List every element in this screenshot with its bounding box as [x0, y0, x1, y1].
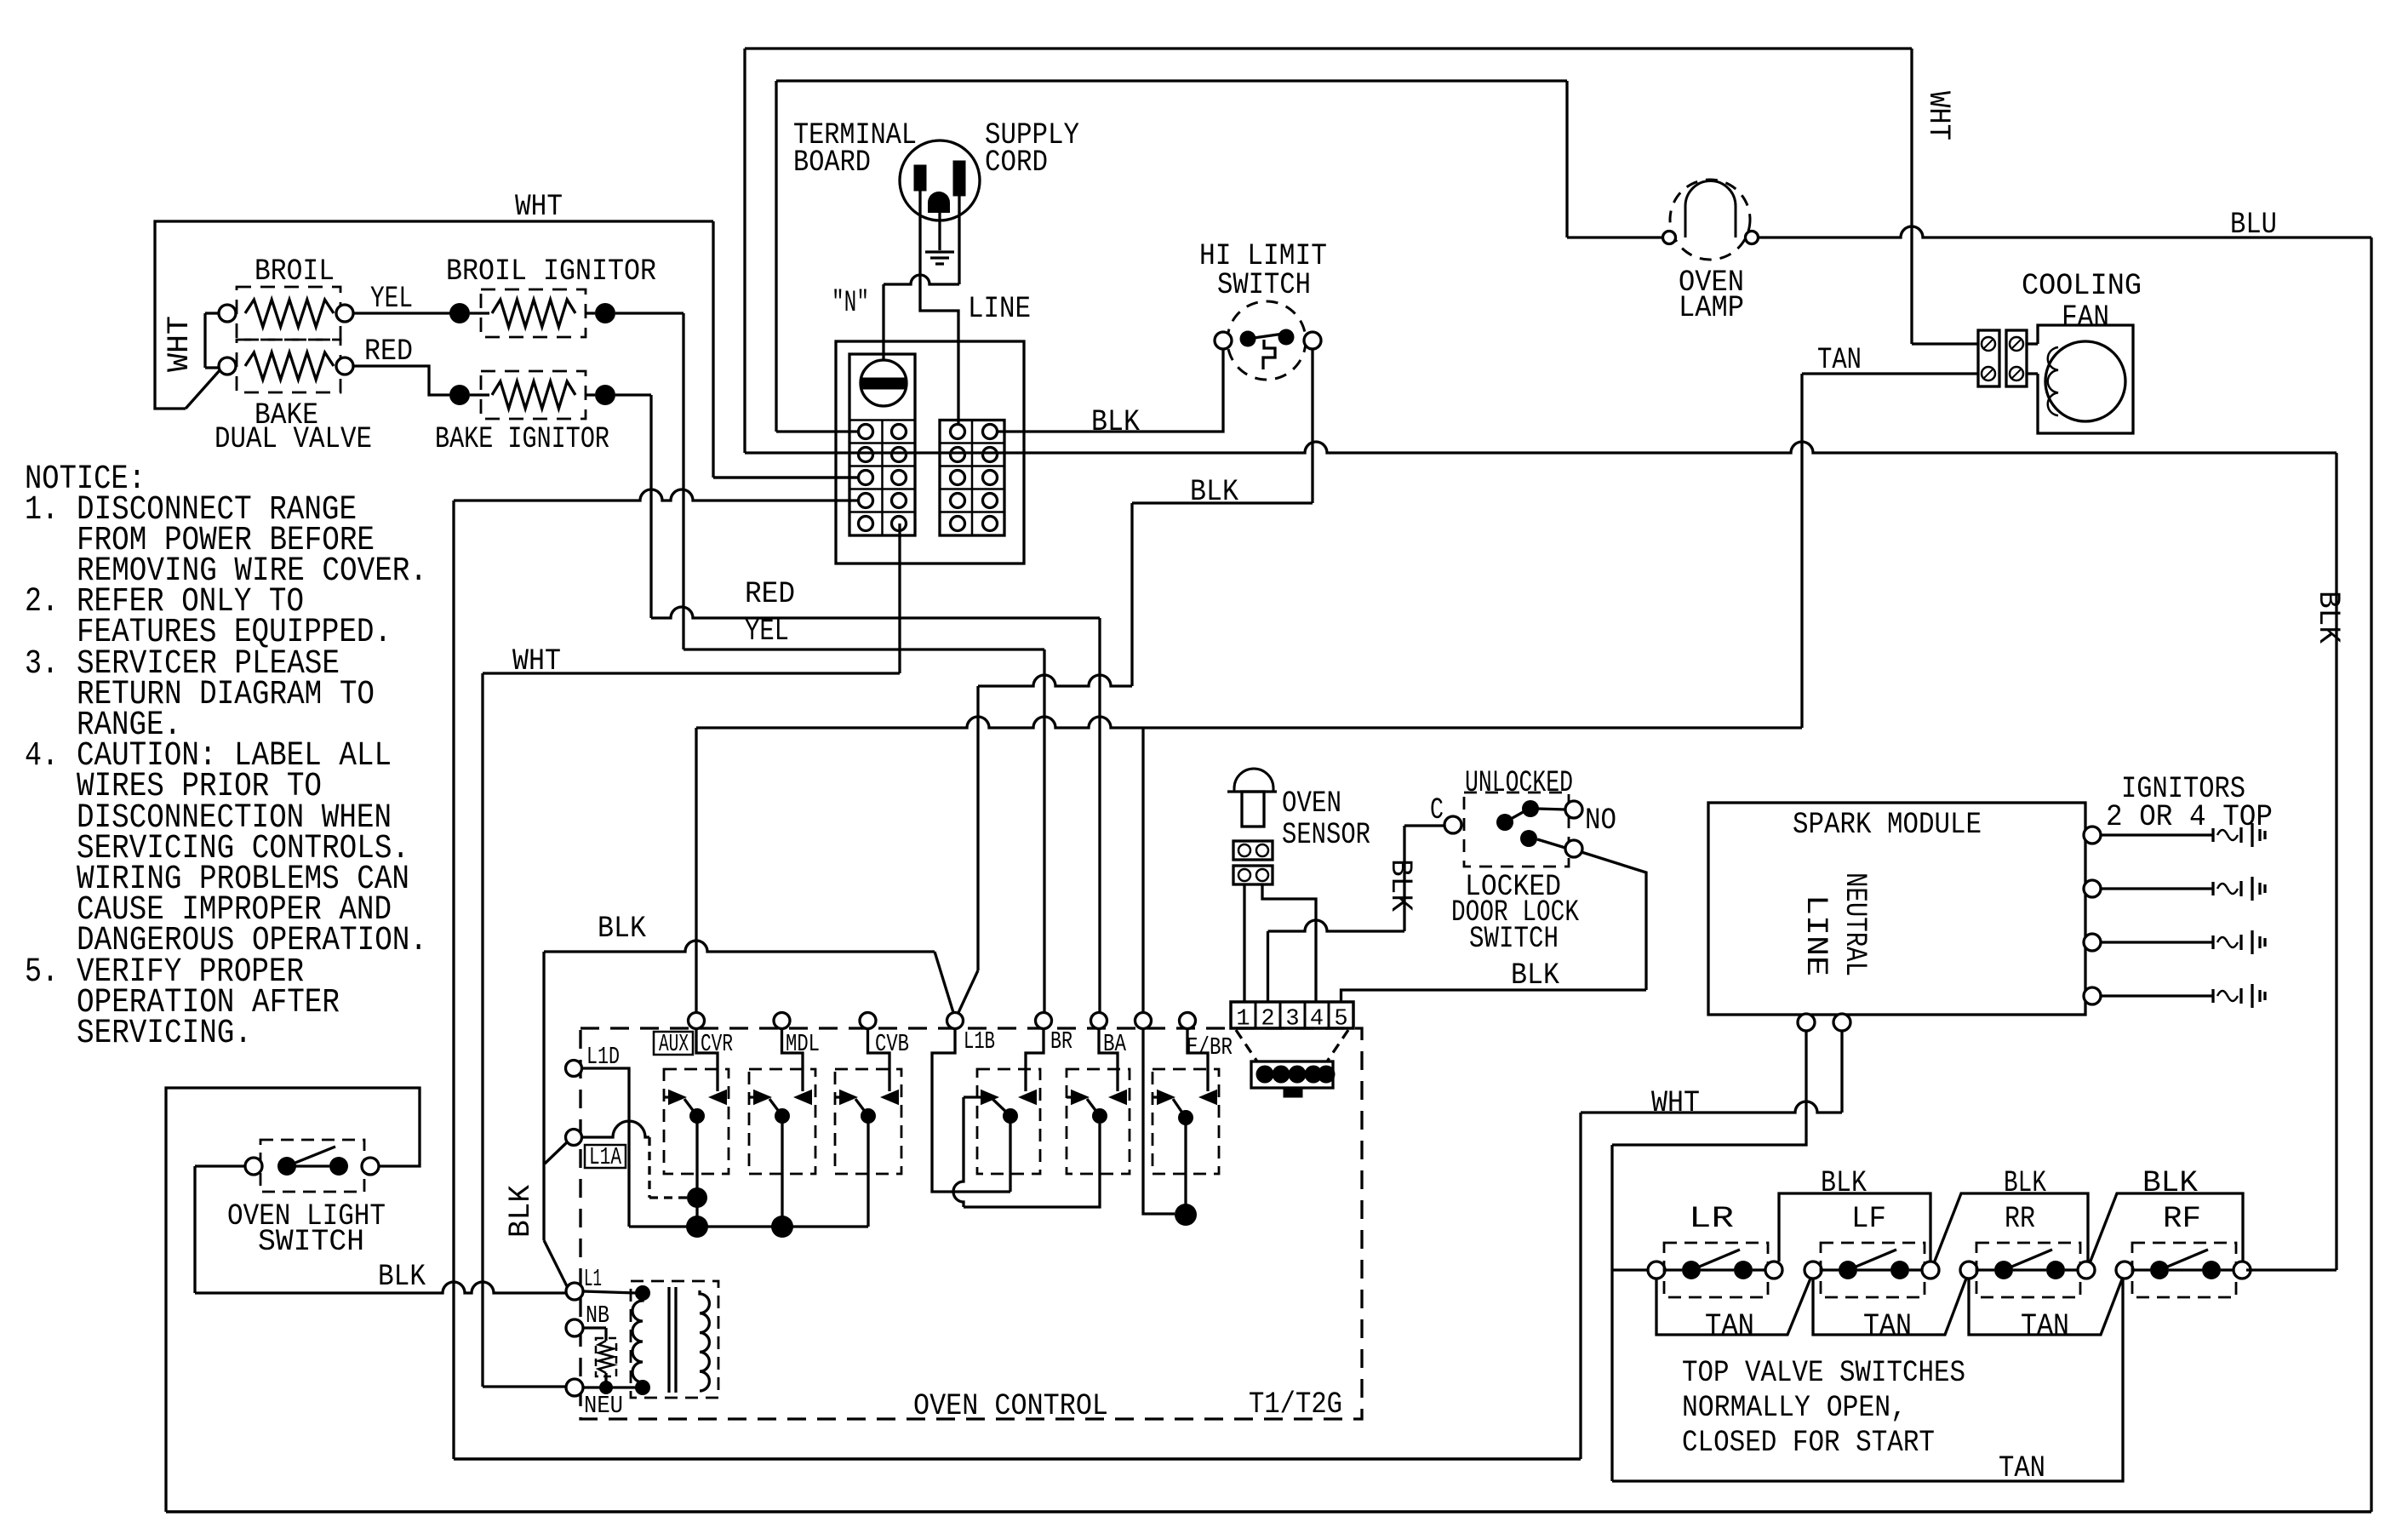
svg-text:YEL: YEL [745, 615, 789, 649]
svg-text:BR: BR [1050, 1027, 1072, 1056]
svg-text:TOP VALVE SWITCHES: TOP VALVE SWITCHES [1682, 1356, 1965, 1390]
svg-text:UNLOCKED: UNLOCKED [1465, 766, 1573, 800]
svg-text:NB: NB [586, 1302, 609, 1330]
svg-text:TAN: TAN [1817, 343, 1862, 377]
svg-text:SPARK MODULE: SPARK MODULE [1793, 808, 1982, 842]
svg-text:T1/T2G: T1/T2G [1249, 1387, 1342, 1422]
svg-text:BLK: BLK [1383, 859, 1417, 912]
svg-text:BLK: BLK [1190, 475, 1238, 509]
svg-text:1: 1 [1236, 1007, 1250, 1033]
svg-text:DUAL VALVE: DUAL VALVE [214, 422, 372, 456]
svg-text:BROIL IGNITOR: BROIL IGNITOR [446, 255, 656, 289]
svg-text:2: 2 [1261, 1007, 1274, 1033]
svg-text:YEL: YEL [370, 282, 413, 316]
svg-text:LINE: LINE [1799, 895, 1833, 976]
svg-text:LINE: LINE [968, 292, 1031, 326]
svg-text:NEU: NEU [584, 1392, 623, 1420]
svg-text:LR: LR [1689, 1202, 1734, 1236]
svg-text:WHT: WHT [515, 190, 563, 224]
svg-text:LAMP: LAMP [1679, 291, 1744, 325]
svg-text:CLOSED FOR START: CLOSED FOR START [1682, 1426, 1935, 1460]
svg-text:BLK: BLK [2142, 1166, 2198, 1200]
svg-text:2 OR 4 TOP: 2 OR 4 TOP [2106, 800, 2273, 834]
svg-text:TAN: TAN [2021, 1309, 2069, 1343]
svg-text:BLK: BLK [504, 1185, 538, 1238]
svg-text:4: 4 [1310, 1007, 1324, 1033]
svg-text:NO: NO [1585, 804, 1616, 838]
svg-text:TAN: TAN [1705, 1309, 1754, 1343]
svg-text:SERVICING.: SERVICING. [77, 1015, 252, 1053]
svg-text:E/BR: E/BR [1187, 1033, 1233, 1061]
svg-text:OVEN: OVEN [1282, 787, 1341, 821]
svg-text:COOLING: COOLING [2022, 269, 2142, 303]
svg-text:AUX: AUX [659, 1030, 689, 1058]
svg-text:5: 5 [1334, 1007, 1347, 1033]
svg-text:FAN: FAN [2062, 300, 2109, 335]
svg-text:"N": "N" [832, 286, 869, 320]
svg-text:WHT: WHT [163, 316, 197, 372]
svg-text:L1A: L1A [589, 1143, 621, 1171]
svg-text:OVEN CONTROL: OVEN CONTROL [913, 1389, 1108, 1423]
svg-text:LF: LF [1851, 1202, 1886, 1236]
svg-text:NEUTRAL: NEUTRAL [1838, 872, 1872, 976]
svg-text:BLK: BLK [1091, 405, 1140, 439]
svg-text:4.: 4. [25, 737, 59, 775]
svg-text:WHT: WHT [1651, 1086, 1700, 1120]
svg-text:SWITCH: SWITCH [1469, 922, 1559, 956]
svg-text:2.: 2. [25, 583, 59, 621]
svg-text:BLK: BLK [378, 1260, 426, 1294]
svg-text:SWITCH: SWITCH [258, 1225, 364, 1259]
svg-text:BLK: BLK [1821, 1166, 1867, 1200]
svg-text:3: 3 [1285, 1007, 1299, 1033]
svg-text:5.: 5. [25, 953, 59, 992]
svg-text:BLK: BLK [2311, 591, 2345, 644]
svg-text:L1: L1 [584, 1265, 602, 1293]
svg-text:BROIL: BROIL [255, 255, 335, 289]
svg-text:L1D: L1D [586, 1043, 620, 1071]
svg-text:RF: RF [2163, 1202, 2201, 1236]
svg-text:RED: RED [745, 577, 795, 611]
svg-text:SENSOR: SENSOR [1282, 818, 1370, 852]
svg-text:L1B: L1B [964, 1027, 995, 1056]
svg-text:CORD: CORD [985, 146, 1048, 180]
svg-text:WHT: WHT [512, 644, 561, 678]
svg-text:TAN: TAN [1863, 1309, 1912, 1343]
svg-text:C: C [1430, 793, 1444, 827]
svg-text:RR: RR [2005, 1202, 2035, 1236]
svg-text:3.: 3. [25, 645, 59, 684]
svg-text:1.: 1. [25, 491, 59, 529]
svg-text:BLK: BLK [598, 912, 646, 946]
svg-text:BLK: BLK [1511, 958, 1559, 993]
svg-text:BAKE IGNITOR: BAKE IGNITOR [435, 422, 609, 456]
svg-text:SWITCH: SWITCH [1217, 268, 1311, 302]
svg-text:BOARD: BOARD [793, 146, 871, 180]
svg-text:RED: RED [364, 335, 413, 369]
svg-text:BLK: BLK [2004, 1166, 2046, 1200]
svg-text:NORMALLY OPEN,: NORMALLY OPEN, [1682, 1391, 1907, 1425]
svg-text:BLU: BLU [2230, 208, 2277, 242]
svg-text:TAN: TAN [1999, 1451, 2045, 1485]
svg-text:WHT: WHT [1921, 91, 1955, 140]
